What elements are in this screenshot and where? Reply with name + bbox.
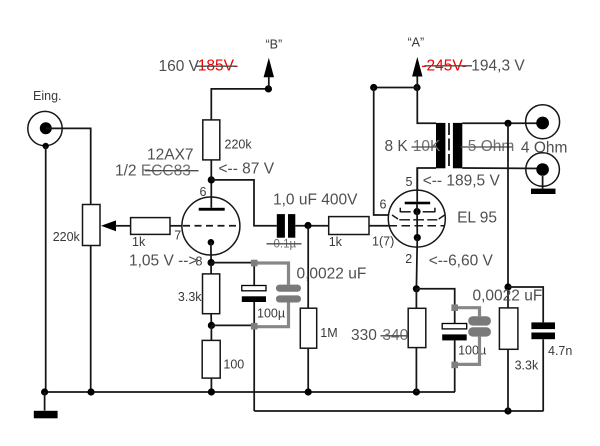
- transformer core dashed: [448, 123, 450, 168]
- wire node to 100: [210, 325, 212, 340]
- gray mod cap right 0,0022uF: [455, 308, 480, 365]
- svg-text:1,05 V -->: 1,05 V -->: [129, 253, 198, 270]
- node feedback split: [504, 283, 511, 290]
- ground rail upper: [45, 391, 455, 393]
- svg-text:8: 8: [196, 255, 203, 269]
- svg-text:1(7): 1(7): [372, 235, 394, 249]
- svg-text:220k: 220k: [225, 138, 253, 152]
- wire A node to transformer primary: [417, 88, 436, 124]
- triode plate bar: [199, 208, 225, 211]
- node triode cathode junction: [208, 259, 215, 266]
- EL95 control grid dashed: [389, 225, 445, 227]
- potentiometer wiper arrow: [101, 220, 116, 231]
- triode grid dashed: [183, 225, 237, 227]
- wire 220k top to B rail: [211, 89, 268, 120]
- wire A node to g2 branch: [374, 87, 417, 89]
- capacitor 100u left leads: [253, 263, 255, 286]
- wire 4.7n bottom to rail: [542, 339, 544, 411]
- transformer secondary bar: [453, 123, 462, 168]
- svg-text:160 V: 160 V: [159, 58, 200, 75]
- svg-text:1,0 uF 400V: 1,0 uF 400V: [273, 191, 358, 208]
- svg-text:1M: 1M: [320, 326, 337, 340]
- node EL95 cathode junction: [413, 285, 420, 292]
- wire 3.3k junction to C bottom: [211, 324, 254, 326]
- gray mod cap left 0,0022uF: [254, 263, 288, 327]
- wire pot bottom to ground rail: [90, 246, 92, 393]
- resistor 1k grid stopper (right): [329, 217, 369, 235]
- resistor 3.3k feedback: [499, 308, 518, 349]
- svg-text:3.3k: 3.3k: [515, 358, 539, 372]
- wire 3.3k to feedback rail: [507, 349, 509, 411]
- wire cathode to 330: [415, 289, 417, 309]
- svg-text:EL 95: EL 95: [457, 209, 497, 226]
- node 3.3k/100 junction: [208, 322, 215, 329]
- svg-text:1k: 1k: [132, 235, 146, 249]
- svg-text:8 K: 8 K: [385, 138, 409, 155]
- resistor 330 cathode: [408, 308, 426, 347]
- wire cap to node: [295, 225, 328, 227]
- svg-text:“A”: “A”: [408, 36, 425, 50]
- svg-text:5: 5: [406, 175, 413, 189]
- EL95 cathode lead pin 2: [415, 238, 418, 289]
- capacitor 100u left plates: [242, 286, 266, 291]
- triode cathode lead pin 8: [210, 242, 212, 262]
- wire 1k to EL95 grid: [369, 225, 389, 227]
- svg-text:3.3k: 3.3k: [178, 290, 202, 304]
- svg-text:0,0022 uF: 0,0022 uF: [473, 287, 543, 304]
- svg-text:6: 6: [380, 197, 387, 211]
- wire cathode junction to C 100u left: [211, 262, 254, 264]
- feedback rail lower: [254, 410, 543, 412]
- wire primary bottom to plate: [417, 168, 436, 190]
- node A supply: [413, 84, 420, 91]
- node triode plate junction: [208, 176, 215, 183]
- svg-text:1k: 1k: [329, 235, 343, 249]
- node B supply: [265, 85, 272, 92]
- svg-text:100µ: 100µ: [257, 307, 285, 321]
- wire plate node to coupling cap: [211, 180, 276, 226]
- capacitor 100u right plates: [442, 324, 467, 329]
- node coupling junction: [304, 222, 311, 229]
- capacitor C1 1,0 uF 400V: [277, 214, 285, 238]
- EL95 beam plates dashed: [392, 215, 445, 220]
- svg-text:0,0022 uF: 0,0022 uF: [297, 266, 367, 283]
- wire 100u right to ground rail: [454, 340, 456, 392]
- svg-text:2: 2: [405, 252, 412, 266]
- wire secondary top to output jack: [462, 122, 542, 124]
- svg-text:220k: 220k: [53, 230, 81, 244]
- svg-text:4.7n: 4.7n: [548, 344, 572, 358]
- triode cathode dot: [208, 239, 215, 246]
- svg-text:330: 330: [351, 327, 377, 344]
- wire jack hot to pot top: [46, 128, 91, 204]
- A supply arrow: [416, 76, 418, 87]
- wire secondary bottom to output jack: [462, 167, 542, 170]
- svg-text:“B”: “B”: [266, 38, 283, 52]
- resistor 1M: [300, 308, 316, 348]
- capacitor 4.7n plates: [531, 322, 555, 329]
- resistor 3.3k cathode (left): [203, 274, 220, 314]
- output RCA jack upper: [526, 105, 560, 139]
- potentiometer 220k body: [83, 205, 101, 246]
- resistor 220k anode: [203, 120, 220, 160]
- wire g2 feed: [374, 88, 389, 216]
- triode V1 12AX7 envelope: [182, 197, 240, 255]
- ground symbol right: [542, 176, 544, 189]
- wire junction down to 1M: [307, 226, 309, 309]
- wire wiper to R 1k: [115, 225, 131, 227]
- svg-text:4 Ohm: 4 Ohm: [521, 139, 568, 156]
- svg-text:7: 7: [174, 229, 181, 243]
- wire jack sleeve to ground rail: [45, 146, 47, 392]
- resistor 100: [202, 340, 220, 378]
- EL95 plate lead to transformer: [416, 168, 418, 202]
- wire 330 to ground rail: [415, 348, 417, 392]
- ground symbol left: [44, 392, 46, 411]
- wire 220k bottom to plate node: [210, 160, 212, 180]
- svg-text:100µ: 100µ: [458, 343, 486, 357]
- node feedback tap: [504, 120, 511, 127]
- svg-text:100: 100: [223, 358, 244, 372]
- EL95 cathode dot: [414, 234, 421, 241]
- EL95 plate bar: [405, 202, 431, 205]
- triode plate lead: [210, 180, 212, 208]
- EL95 V2 envelope: [388, 190, 445, 247]
- transformer T1 primary bar: [436, 123, 445, 168]
- wire EL95 cathode to C 100u right: [416, 289, 454, 324]
- wire to 4.7n branch: [508, 287, 543, 322]
- svg-text:194,3 V: 194,3 V: [471, 57, 525, 74]
- svg-text:12AX7: 12AX7: [147, 147, 194, 164]
- wire 1k to triode grid pin 7: [170, 225, 182, 227]
- EL95 center lead: [416, 204, 418, 237]
- wire 100 to ground rail: [210, 378, 212, 392]
- EL95 g2 dot: [413, 208, 420, 215]
- svg-text:0.1µ: 0.1µ: [274, 239, 297, 251]
- input RCA jack J1: [28, 111, 62, 145]
- svg-text:6: 6: [200, 185, 207, 199]
- output RCA jack lower: [526, 153, 560, 187]
- svg-text:<-- 189,5 V: <-- 189,5 V: [423, 172, 501, 189]
- wire 3.3k to node: [210, 314, 212, 326]
- svg-text:<-- 87 V: <-- 87 V: [219, 160, 275, 177]
- resistor 1k grid (left): [131, 218, 170, 235]
- wire cathode to 3.3k: [210, 263, 212, 274]
- wire feedback tap down: [507, 123, 509, 308]
- svg-text:Eing.: Eing.: [33, 89, 62, 103]
- wire 1M to ground rail: [307, 348, 309, 392]
- B supply arrow: [268, 77, 270, 89]
- svg-text:<--6,60 V: <--6,60 V: [429, 252, 494, 269]
- EL95 screen grid g2 staple: [399, 208, 401, 213]
